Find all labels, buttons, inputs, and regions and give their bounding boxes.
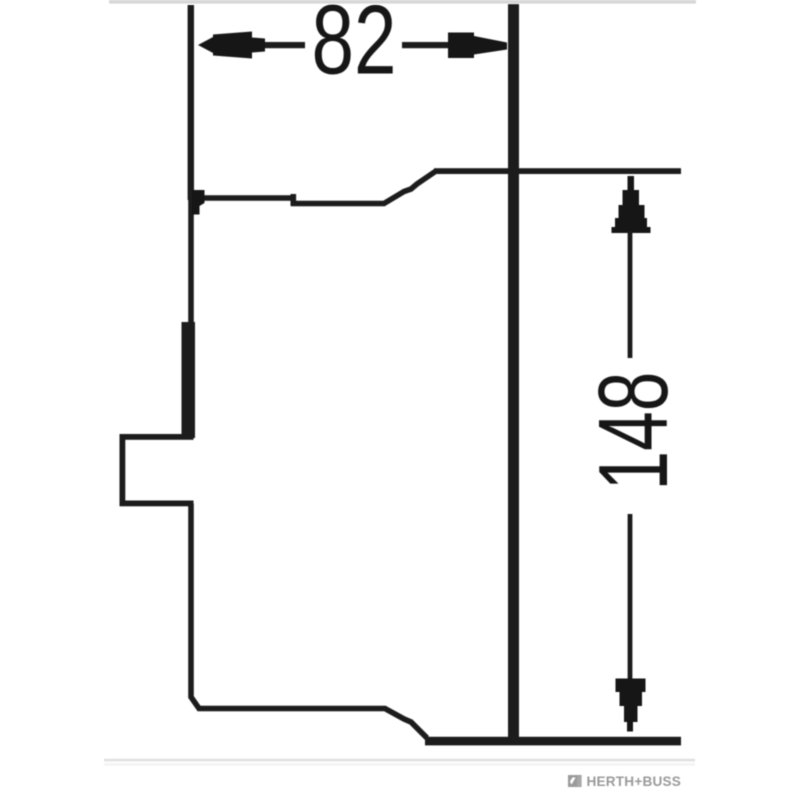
- left extension line: [188, 5, 194, 200]
- thick left edge segment: [182, 322, 196, 438]
- top edge right section with extension to 148 dimension: [434, 168, 681, 174]
- part outline profile: [191, 171, 436, 738]
- dimension line 82 right segment: [402, 42, 452, 48]
- mounting tab left edge: [120, 434, 126, 506]
- 148 dimension line lower segment: [628, 514, 633, 680]
- left arrowhead of 82 dimension: [198, 32, 265, 59]
- junction blob at top-left corner: [192, 190, 205, 215]
- svg-text:82: 82: [312, 0, 397, 95]
- mounting tab bottom edge: [120, 501, 194, 507]
- logo mark square: [568, 775, 582, 787]
- svg-text:148: 148: [579, 372, 689, 491]
- logo mark lighter right panel: [577, 776, 582, 787]
- dimension line 82 left segment: [245, 42, 305, 48]
- bottom edge with extension to 148 dimension: [425, 737, 681, 746]
- 148 dimension line upper segment: [628, 231, 633, 358]
- right arrowhead of 82 dimension: [448, 33, 507, 59]
- right edge of part / right extension line: [508, 4, 519, 741]
- 148 dimension bottom arrowhead: [616, 679, 646, 732]
- bottom separator line: [104, 759, 695, 762]
- top scan edge band: [109, 0, 696, 4]
- bottom separator faint shadow: [104, 763, 695, 765]
- step between top edge segments: [291, 194, 297, 206]
- 148 dimension top arrowhead: [612, 176, 651, 233]
- logo mark white slash: [570, 778, 576, 785]
- svg-text:HERTH+BUSS: HERTH+BUSS: [587, 774, 682, 789]
- mounting tab top edge: [120, 434, 194, 440]
